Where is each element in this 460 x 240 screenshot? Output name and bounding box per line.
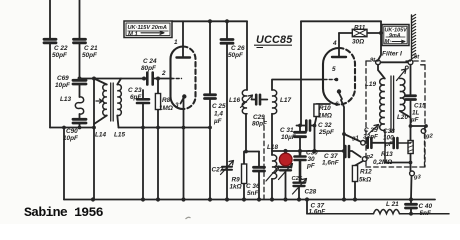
svg-text:UCC85: UCC85 xyxy=(256,34,293,46)
svg-text:UK·115V 20mA: UK·115V 20mA xyxy=(128,25,167,31)
svg-text:L20: L20 xyxy=(397,114,408,121)
svg-text:C 22: C 22 xyxy=(54,45,68,52)
svg-text:R12: R12 xyxy=(360,169,372,176)
svg-text:C 36: C 36 xyxy=(246,183,260,190)
svg-text:4: 4 xyxy=(332,40,337,47)
svg-text:C 40: C 40 xyxy=(419,203,433,210)
svg-text:9mA: 9mA xyxy=(389,33,401,39)
svg-text:L18: L18 xyxy=(267,144,278,151)
svg-text:10pF: 10pF xyxy=(55,82,71,89)
svg-text:R10: R10 xyxy=(319,105,331,112)
svg-text:6pF: 6pF xyxy=(130,94,142,101)
svg-text:C69: C69 xyxy=(57,75,69,82)
svg-text:6: 6 xyxy=(335,101,339,108)
svg-text:R13: R13 xyxy=(381,151,393,158)
svg-text:1,6nF: 1,6nF xyxy=(309,209,327,216)
svg-text:2: 2 xyxy=(161,70,166,77)
svg-text:10pF: 10pF xyxy=(63,135,79,142)
svg-text:M 1: M 1 xyxy=(128,31,138,37)
svg-text:L17: L17 xyxy=(280,97,291,104)
svg-text:L13: L13 xyxy=(60,96,71,103)
svg-text:C25: C25 xyxy=(292,176,303,182)
svg-text:33pF: 33pF xyxy=(363,134,379,141)
svg-text:C 23: C 23 xyxy=(128,87,142,94)
svg-text:C90: C90 xyxy=(66,128,78,135)
svg-text:L19: L19 xyxy=(365,81,376,88)
svg-text:pF: pF xyxy=(306,163,316,170)
svg-text:L14: L14 xyxy=(95,132,106,139)
svg-text:5: 5 xyxy=(332,66,336,73)
svg-text:g2: g2 xyxy=(366,154,375,160)
svg-text:1kΩ: 1kΩ xyxy=(230,184,242,191)
svg-text:R11: R11 xyxy=(354,25,366,32)
svg-text:µF: µF xyxy=(213,118,223,125)
svg-text:Filter I: Filter I xyxy=(382,51,402,58)
svg-text:L15: L15 xyxy=(114,132,125,139)
svg-text:1L: 1L xyxy=(412,110,420,117)
svg-text:C15: C15 xyxy=(414,103,426,110)
svg-text:50pF: 50pF xyxy=(52,52,68,59)
svg-text:50pF: 50pF xyxy=(82,52,98,59)
svg-text:5nF: 5nF xyxy=(420,210,432,217)
svg-text:1MΩ: 1MΩ xyxy=(159,105,173,112)
svg-text:10µF: 10µF xyxy=(281,134,297,141)
svg-text:R9: R9 xyxy=(232,177,241,184)
svg-text:1MΩ: 1MΩ xyxy=(318,113,332,120)
svg-text:1: 1 xyxy=(174,39,178,46)
svg-text:C 24: C 24 xyxy=(143,58,157,65)
svg-text:C27: C27 xyxy=(212,167,224,174)
svg-text:pF: pF xyxy=(384,141,394,148)
svg-text:80pF: 80pF xyxy=(252,121,268,128)
svg-text:30Ω: 30Ω xyxy=(352,39,364,46)
svg-text:C 26: C 26 xyxy=(231,45,245,52)
svg-text:g1: g1 xyxy=(351,136,359,142)
svg-text:Sabine 1956: Sabine 1956 xyxy=(24,205,104,220)
svg-text:L 21: L 21 xyxy=(386,201,399,208)
svg-text:25pF: 25pF xyxy=(318,129,335,136)
svg-text:C 31: C 31 xyxy=(280,127,294,134)
svg-text:C 32: C 32 xyxy=(318,122,332,129)
svg-text:50pF: 50pF xyxy=(228,52,244,59)
svg-text:5nF: 5nF xyxy=(247,190,259,197)
svg-text:1,6nF: 1,6nF xyxy=(322,160,340,167)
svg-text:C 21: C 21 xyxy=(84,45,98,52)
svg-text:R8: R8 xyxy=(162,97,171,104)
svg-text:0,2MΩ: 0,2MΩ xyxy=(373,159,392,166)
svg-text:80pF: 80pF xyxy=(141,65,157,72)
svg-text:3: 3 xyxy=(175,102,179,109)
svg-text:L16: L16 xyxy=(229,97,240,104)
svg-text:µF: µF xyxy=(410,117,420,124)
svg-text:1,4: 1,4 xyxy=(214,111,223,118)
svg-text:C28: C28 xyxy=(305,189,317,196)
svg-text:g2: g2 xyxy=(425,134,434,140)
svg-text:g3: g3 xyxy=(413,175,422,181)
svg-text:M·: M· xyxy=(385,39,392,45)
svg-text:C 25: C 25 xyxy=(212,103,226,110)
svg-text:5kΩ: 5kΩ xyxy=(359,177,371,184)
